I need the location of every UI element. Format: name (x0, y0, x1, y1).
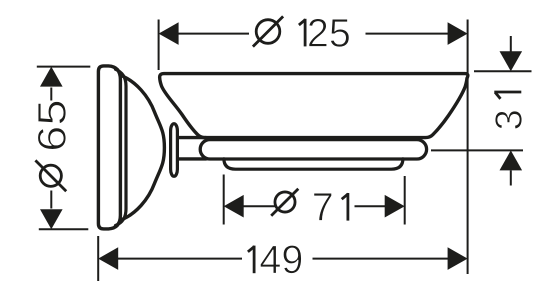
svg-text:65: 65 (30, 99, 75, 151)
svg-text:3: 3 (489, 109, 531, 130)
svg-text:7: 7 (312, 186, 334, 230)
svg-text:49: 49 (259, 238, 303, 282)
svg-text:25: 25 (307, 11, 351, 55)
